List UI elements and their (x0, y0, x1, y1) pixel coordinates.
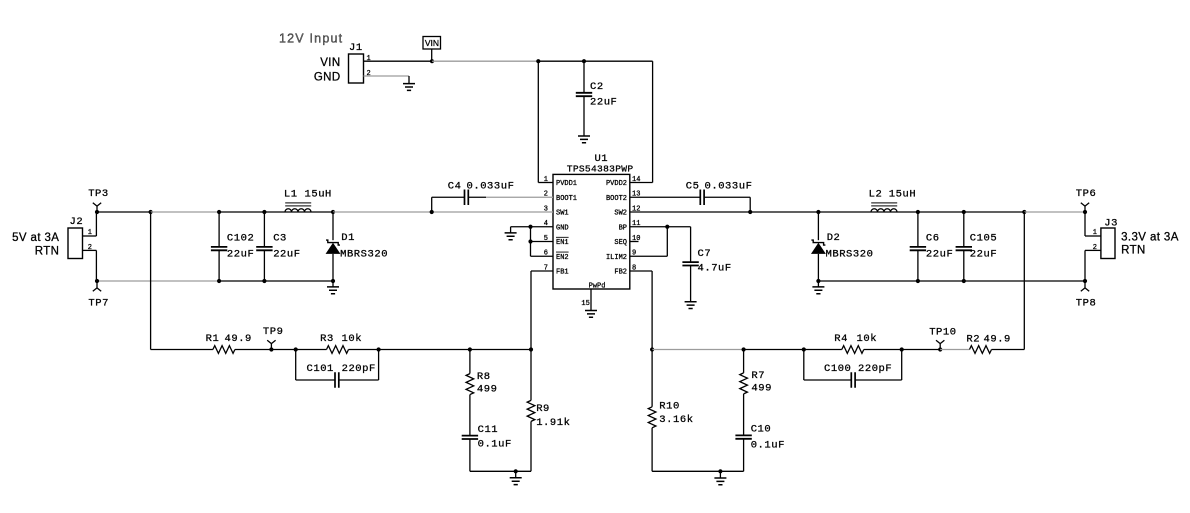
svg-text:R9: R9 (536, 403, 550, 415)
svg-text:10k: 10k (342, 333, 363, 345)
svg-text:22uF: 22uF (227, 248, 254, 260)
svg-text:TP10: TP10 (929, 326, 956, 338)
svg-text:BOOT2: BOOT2 (606, 195, 627, 203)
svg-text:PVDD1: PVDD1 (556, 180, 577, 188)
svg-text:22uF: 22uF (273, 248, 300, 260)
svg-text:0.1uF: 0.1uF (751, 439, 785, 451)
svg-text:VIN: VIN (425, 38, 439, 48)
svg-text:49.9: 49.9 (984, 334, 1011, 346)
svg-text:15: 15 (581, 300, 589, 308)
svg-text:J2: J2 (70, 216, 84, 228)
svg-text:12V Input: 12V Input (279, 31, 343, 45)
svg-text:1: 1 (367, 55, 371, 63)
svg-text:0.033uF: 0.033uF (467, 181, 515, 193)
svg-text:R2: R2 (966, 334, 980, 346)
svg-text:1.91k: 1.91k (536, 417, 570, 429)
svg-text:ILIM2: ILIM2 (606, 254, 627, 262)
svg-text:D1: D1 (341, 232, 355, 244)
svg-text:RTN: RTN (35, 245, 60, 257)
svg-text:C101: C101 (307, 363, 334, 375)
svg-text:C6: C6 (926, 232, 940, 244)
svg-text:SW2: SW2 (614, 210, 627, 218)
svg-text:3.3V at 3A: 3.3V at 3A (1121, 232, 1179, 244)
svg-text:L2: L2 (869, 188, 883, 200)
svg-text:GND: GND (314, 71, 341, 83)
svg-text:5V at 3A: 5V at 3A (12, 232, 59, 244)
svg-text:PVDD2: PVDD2 (606, 180, 627, 188)
svg-text:J1: J1 (349, 42, 363, 54)
svg-text:C10: C10 (751, 424, 772, 436)
svg-text:2: 2 (88, 244, 92, 252)
svg-text:22uF: 22uF (926, 248, 953, 260)
svg-text:C11: C11 (478, 424, 499, 436)
svg-text:R4: R4 (834, 333, 848, 345)
svg-text:FB2: FB2 (614, 269, 627, 277)
svg-text:499: 499 (751, 383, 772, 395)
svg-text:BP: BP (619, 224, 627, 232)
svg-text:1: 1 (1093, 229, 1097, 237)
svg-text:R8: R8 (477, 371, 491, 383)
svg-text:0.1uF: 0.1uF (478, 438, 512, 450)
svg-text:C7: C7 (698, 248, 712, 260)
svg-text:22uF: 22uF (970, 248, 997, 260)
svg-text:1: 1 (88, 229, 92, 237)
svg-text:15uH: 15uH (305, 188, 332, 200)
svg-text:SEQ: SEQ (614, 239, 627, 247)
svg-text:R1: R1 (206, 333, 220, 345)
svg-text:VIN: VIN (320, 57, 340, 69)
svg-text:R10: R10 (659, 401, 680, 413)
svg-text:49.9: 49.9 (225, 333, 252, 345)
svg-text:499: 499 (477, 384, 498, 396)
svg-text:L1: L1 (284, 188, 298, 200)
svg-text:R7: R7 (751, 370, 765, 382)
svg-text:EN2: EN2 (556, 254, 569, 262)
svg-text:C4: C4 (448, 181, 462, 193)
svg-text:D2: D2 (827, 232, 841, 244)
svg-text:SW1: SW1 (556, 210, 569, 218)
svg-text:MBRS320: MBRS320 (340, 248, 388, 260)
svg-text:MBRS320: MBRS320 (826, 248, 874, 260)
svg-text:C105: C105 (970, 232, 997, 244)
svg-text:2: 2 (367, 70, 371, 78)
svg-text:BOOT1: BOOT1 (556, 195, 577, 203)
svg-text:220pF: 220pF (342, 363, 376, 375)
svg-text:TP8: TP8 (1076, 298, 1097, 310)
svg-text:C102: C102 (227, 232, 254, 244)
svg-text:FB1: FB1 (556, 269, 569, 277)
svg-text:GND: GND (556, 224, 569, 232)
svg-text:RTN: RTN (1121, 244, 1146, 256)
svg-text:TP6: TP6 (1076, 188, 1097, 200)
svg-text:J3: J3 (1104, 218, 1118, 230)
svg-text:TP9: TP9 (263, 326, 284, 338)
svg-text:C5: C5 (686, 181, 700, 193)
svg-text:TPS54383PWP: TPS54383PWP (567, 163, 634, 174)
svg-text:22uF: 22uF (590, 96, 617, 108)
svg-text:C100: C100 (824, 363, 851, 375)
svg-text:TP3: TP3 (88, 188, 109, 200)
svg-text:EN1: EN1 (556, 239, 569, 247)
svg-text:R3: R3 (320, 333, 334, 345)
svg-text:C2: C2 (590, 81, 604, 93)
svg-text:220pF: 220pF (858, 363, 892, 375)
svg-text:TP7: TP7 (88, 298, 109, 310)
svg-text:2: 2 (1093, 244, 1097, 252)
svg-text:C3: C3 (273, 232, 287, 244)
svg-text:10k: 10k (857, 333, 878, 345)
svg-text:15uH: 15uH (889, 188, 916, 200)
svg-text:0.033uF: 0.033uF (705, 181, 753, 193)
svg-text:3.16k: 3.16k (659, 414, 693, 426)
svg-text:4.7uF: 4.7uF (698, 263, 732, 275)
